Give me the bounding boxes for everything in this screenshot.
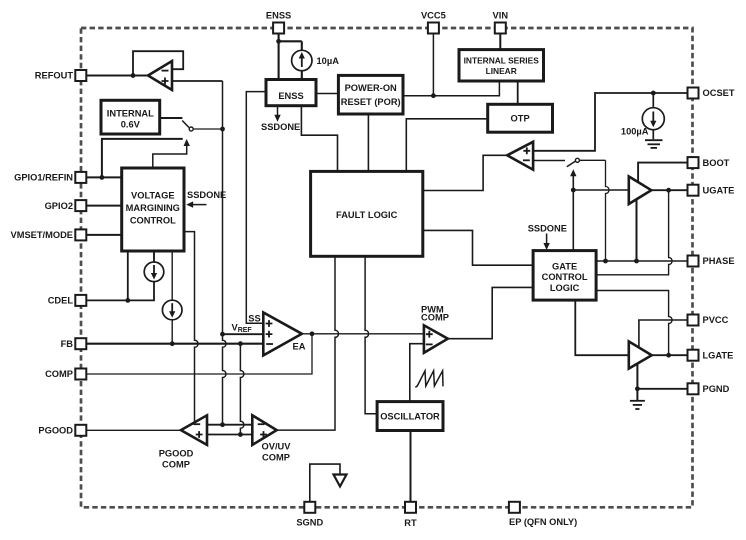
svg-text:PVCC: PVCC [703,315,729,325]
svg-text:OV/UV: OV/UV [262,442,292,452]
svg-text:SGND: SGND [296,518,323,528]
svg-text:COMP: COMP [162,459,190,469]
svg-text:RESET (POR): RESET (POR) [341,97,401,107]
svg-text:100µA: 100µA [621,126,649,136]
svg-text:ENSS: ENSS [278,91,303,101]
svg-text:PGND: PGND [703,384,730,394]
svg-text:OTP: OTP [511,114,530,124]
svg-text:0.6V: 0.6V [121,120,141,130]
svg-text:SS: SS [248,314,260,324]
svg-text:10µA: 10µA [317,56,340,66]
svg-text:BOOT: BOOT [703,158,730,168]
svg-text:COMP: COMP [262,453,290,463]
svg-text:POWER-ON: POWER-ON [345,83,397,93]
svg-text:UGATE: UGATE [703,185,735,195]
svg-text:FB: FB [61,339,74,349]
svg-text:VCC5: VCC5 [421,11,446,21]
svg-text:VIN: VIN [493,11,509,21]
svg-text:EP (QFN ONLY): EP (QFN ONLY) [509,517,577,527]
svg-text:SSDONE: SSDONE [528,223,567,233]
svg-text:PGOOD: PGOOD [38,426,73,436]
svg-text:SSDONE: SSDONE [187,190,226,200]
svg-text:OSCILLATOR: OSCILLATOR [380,412,440,422]
svg-text:INTERNAL SERIES: INTERNAL SERIES [464,56,540,66]
svg-text:MARGINING: MARGINING [126,203,180,213]
svg-text:RT: RT [404,518,417,528]
svg-text:COMP: COMP [421,313,449,323]
svg-text:VOLTAGE: VOLTAGE [131,191,175,201]
svg-text:FAULT LOGIC: FAULT LOGIC [336,210,398,220]
svg-text:GPIO1/REFIN: GPIO1/REFIN [14,173,73,183]
svg-text:CDEL: CDEL [48,296,74,306]
svg-text:ENSS: ENSS [266,11,291,21]
svg-text:CONTROL: CONTROL [542,272,588,282]
svg-text:SSDONE: SSDONE [261,122,300,132]
svg-text:PHASE: PHASE [703,256,735,266]
svg-text:REFOUT: REFOUT [35,71,74,81]
svg-text:GATE: GATE [552,261,577,271]
svg-text:INTERNAL: INTERNAL [107,109,154,119]
svg-text:EA: EA [293,341,306,351]
svg-text:PGOOD: PGOOD [159,448,194,458]
svg-text:COMP: COMP [45,369,73,379]
svg-text:LOGIC: LOGIC [550,283,580,293]
svg-text:CONTROL: CONTROL [130,215,176,225]
svg-text:VMSET/MODE: VMSET/MODE [11,230,74,240]
svg-text:LINEAR: LINEAR [486,66,517,76]
svg-text:OCSET: OCSET [703,88,735,98]
svg-text:LGATE: LGATE [703,350,734,360]
svg-text:GPIO2: GPIO2 [45,201,73,211]
